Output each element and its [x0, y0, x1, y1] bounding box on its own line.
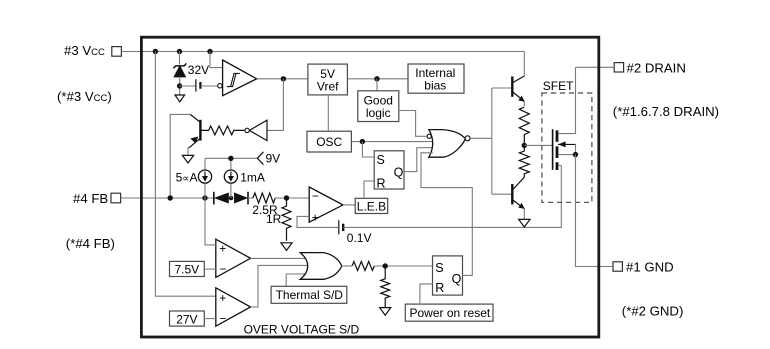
zener diode 32V [173, 63, 186, 76]
svg-text:1mA: 1mA [240, 170, 265, 184]
wire zener to ground [179, 77, 181, 95]
svg-text:+: + [312, 211, 319, 225]
node Vref-GoodLogic junction [374, 76, 379, 81]
wire junction to capacitor [180, 85, 196, 87]
node FB-Q3 junction [168, 195, 173, 200]
wire latch2 Q to NOR input [421, 153, 472, 276]
wire error amp output [343, 204, 355, 206]
box L.E.B [355, 198, 388, 213]
capacitor at comparator input [196, 79, 201, 91]
svg-text:S: S [377, 153, 385, 167]
wire comparator output to inverter [267, 79, 283, 131]
pin #1 GND square [613, 262, 622, 271]
node diode center junction [229, 196, 234, 201]
node gate drive junction [522, 143, 527, 148]
pin #4 FB square [111, 193, 121, 203]
wire upper base [492, 87, 511, 89]
svg-text:7.5V: 7.5V [175, 262, 200, 276]
current source 5uA [198, 158, 211, 198]
svg-text:(*#4 FB): (*#4 FB) [66, 236, 115, 251]
node Vcc-comparator junction [207, 49, 212, 54]
wire 2.5R to error amp [275, 197, 309, 199]
wire 27V comparator output to OR [251, 265, 310, 307]
svg-text:R: R [377, 176, 386, 190]
node Vcc-OVP junction [153, 49, 158, 54]
svg-text:Power on reset: Power on reset [410, 306, 491, 320]
wire latch1 Q to NOR [404, 148, 434, 172]
wire current sense line to SFET source [343, 166, 561, 228]
transistor Q1 (upper driver NPN) [512, 76, 524, 102]
resistor (base drive) [201, 126, 244, 135]
svg-text:−: − [312, 189, 319, 203]
comparator U1 (UVLO schmitt) [223, 60, 257, 96]
svg-text:Q: Q [394, 165, 404, 179]
inverter (left pointing) [249, 120, 267, 140]
svg-text:R: R [435, 281, 444, 295]
wire comparator non-inverting input [210, 52, 223, 68]
resistor (latch2 S drive) [352, 262, 374, 271]
wire Q1 emitter to R1 [523, 101, 525, 106]
transistor SFET (power MOSFET) [553, 129, 557, 170]
wire OSC to NOR [351, 141, 433, 143]
comparator U6 (27V OVP) [216, 288, 251, 326]
schmitt hysteresis symbol [227, 73, 240, 86]
wire capacitor to comparator bubble [201, 85, 218, 87]
wire FB to 7.5V comparator [205, 198, 216, 245]
wire NOR output to drivers [470, 137, 492, 139]
box Power on reset [405, 304, 493, 321]
node OSC output junction [360, 139, 365, 144]
wire comparator output [257, 78, 308, 80]
wire Thermal to OR [286, 274, 307, 286]
wire Vcc rail [121, 52, 524, 77]
svg-text:Vref: Vref [317, 79, 339, 93]
box Thermal S/D [271, 286, 347, 303]
wire Power on reset to latch2 R [420, 284, 433, 304]
node zener-capacitor junction [177, 83, 182, 88]
svg-text:−: − [220, 262, 227, 276]
transistor Q2 (lower driver NPN) [512, 177, 524, 209]
svg-text:9V: 9V [266, 152, 281, 166]
wire SFET source stub [558, 154, 576, 156]
wire zener top [179, 52, 181, 65]
NOR gate output bubble [465, 136, 470, 141]
box OSC [307, 131, 351, 152]
svg-text:OVER VOLTAGE S/D: OVER VOLTAGE S/D [244, 322, 360, 336]
ground below 1R [281, 243, 292, 251]
current source 1mA [224, 158, 237, 198]
svg-text:Q: Q [452, 272, 462, 286]
wire SFET sense stub [558, 165, 561, 167]
svg-text:#2 DRAIN: #2 DRAIN [627, 60, 686, 75]
svg-text:27V: 27V [176, 312, 197, 326]
9V supply tick [257, 152, 263, 165]
wire Q3 collector to FB [170, 114, 190, 198]
ground below Q2 [519, 219, 530, 227]
node FB-5uA junction [202, 195, 207, 200]
SFET dashed box [542, 93, 592, 202]
box 5V Vref [308, 64, 348, 95]
wire inverter to base resistor [234, 129, 245, 131]
wire 7.5V box to comparator [204, 268, 216, 270]
wire 7.5V comparator output to OR [251, 257, 308, 259]
outer block border [141, 37, 598, 337]
ground below Q3 [182, 155, 193, 163]
wire driver bases vertical [491, 88, 493, 194]
wire drain pin [576, 66, 615, 68]
resistor 2.5R [253, 193, 275, 203]
svg-text:+: + [219, 241, 226, 255]
svg-text:(*#1.6.7.8 DRAIN): (*#1.6.7.8 DRAIN) [613, 104, 719, 119]
ground below zener [175, 95, 185, 102]
latch U3 S/R box [374, 151, 404, 189]
wire SFET source to GND pin [576, 155, 614, 267]
resistor 1R [282, 198, 291, 241]
node Vcc-zener junction [177, 49, 182, 54]
transistor Q3 (PNP, startup) [189, 114, 200, 147]
OR gate U7 [300, 253, 342, 280]
svg-text:(*#2 GND): (*#2 GND) [622, 304, 684, 319]
wire OVP sense rail to 27V comparator [155, 52, 215, 297]
svg-text:0.1V: 0.1V [347, 231, 372, 245]
wire OR output [342, 265, 352, 267]
NOR gate input bubble [427, 134, 431, 138]
box Internal bias [408, 64, 464, 93]
wire Vref to Internal bias [347, 78, 407, 80]
wire Q3 emitter to ground [188, 148, 189, 156]
svg-text:5∝A: 5∝A [176, 170, 198, 184]
wire Vref to OSC [327, 95, 329, 131]
comparator U5 (7.5V) [216, 239, 251, 277]
wire error amp plus input [297, 216, 338, 227]
node comparator output junction [281, 76, 286, 81]
svg-text:bias: bias [424, 79, 446, 93]
NOR gate U4 [429, 130, 466, 158]
svg-text:S: S [435, 261, 443, 275]
diode D2 (right clamp) [234, 192, 248, 205]
wire SFET drain stub [558, 67, 576, 133]
node SFET source junction [573, 152, 578, 157]
SFET body arrow [558, 141, 576, 154]
svg-text:−: − [220, 311, 227, 325]
wire FB line [121, 197, 214, 199]
resistor R2 (gate drive lower) [519, 145, 529, 177]
latch U8 S/R box [433, 256, 463, 295]
resistor (pulldown) [381, 266, 390, 308]
pin #3 Vcc square [112, 47, 122, 57]
node 9V-1mA junction [228, 156, 233, 161]
wire resistor to latch2 S [374, 265, 432, 267]
wire OSC junction to latch1 S [362, 142, 374, 157]
svg-text:logic: logic [366, 106, 391, 120]
wire Q2 emitter to ground [523, 209, 525, 220]
svg-text:OSC: OSC [316, 135, 342, 149]
box 27V [170, 311, 205, 326]
svg-text:+: + [219, 291, 226, 305]
svg-text:#4 FB: #4 FB [73, 191, 108, 206]
pin #2 DRAIN square [614, 63, 623, 72]
battery 0.1V [339, 220, 343, 234]
svg-text:#1 GND: #1 GND [626, 260, 674, 275]
ground below pulldown [380, 308, 391, 316]
wire diode to 2.5R [248, 197, 253, 199]
wire junction to Good logic [376, 79, 378, 91]
comparator U1 input bubble [218, 84, 222, 88]
diode D1 (left clamp) [214, 192, 229, 205]
wire 9V supply line [205, 157, 257, 159]
wire Good logic to NOR bubble [399, 111, 427, 137]
box Good logic [358, 91, 399, 122]
node FB divider junction [284, 195, 289, 200]
svg-text:32V: 32V [188, 63, 209, 77]
resistor R1 (gate drive upper) [519, 107, 529, 145]
wire L.E.B to latch1 R [364, 181, 374, 198]
inverter output bubble [245, 128, 249, 132]
op-amp U2 (error amp) [309, 187, 343, 222]
wire 27V box to comparator [204, 318, 216, 320]
svg-text:1R: 1R [266, 212, 282, 226]
svg-text:Thermal S/D: Thermal S/D [276, 288, 344, 302]
box 7.5V [170, 261, 205, 276]
node latch2 S junction [383, 263, 388, 268]
svg-text:L.E.B: L.E.B [357, 200, 386, 214]
svg-text:SFET: SFET [543, 79, 574, 93]
wire gate drive to SFET gate [524, 144, 552, 146]
wire lower base [492, 193, 511, 195]
